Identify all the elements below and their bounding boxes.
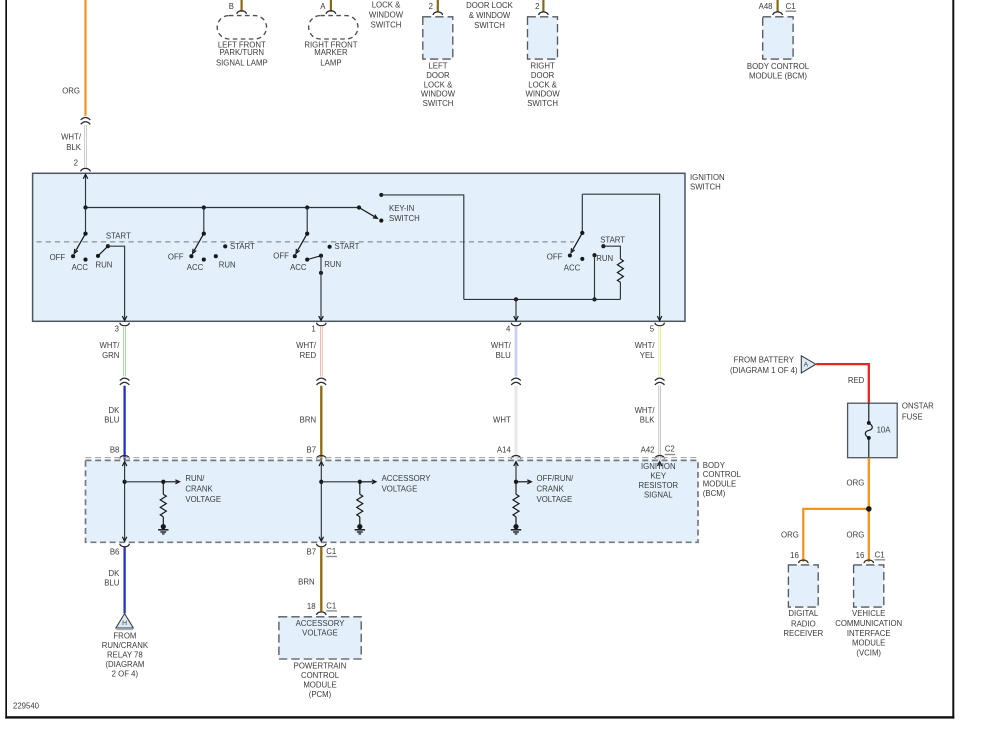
svg-text:MODULE: MODULE	[303, 681, 336, 690]
module BODY CONTROL MODULE (BCM) top	[763, 0, 793, 59]
wire ORG from fuse down	[868, 458, 870, 562]
wire WHT/BLK	[84, 125, 87, 168]
svg-text:START: START	[106, 232, 131, 241]
pin A	[320, 2, 326, 11]
svg-text:(DIAGRAM: (DIAGRAM	[105, 660, 144, 669]
off-page reference triangle A from battery	[801, 356, 816, 373]
svg-text:B7: B7	[307, 548, 317, 557]
svg-text:BODY: BODY	[703, 461, 726, 470]
svg-text:ACC: ACC	[290, 263, 307, 272]
svg-text:ONSTAR: ONSTAR	[902, 402, 934, 411]
svg-text:(PCM): (PCM)	[309, 690, 332, 699]
svg-text:C2: C2	[665, 445, 675, 454]
svg-text:FROM BATTERY: FROM BATTERY	[734, 355, 795, 364]
label DOOR LOCK & WINDOW SWITCH (cut-off component)	[466, 1, 514, 30]
wire to pin 4 exit	[514, 299, 519, 320]
svg-text:SWITCH: SWITCH	[423, 99, 454, 108]
ignition switch section 3 (pin 1)	[293, 205, 323, 275]
svg-text:CONTROL: CONTROL	[703, 470, 742, 479]
labels OFF ACC RUN START section3	[273, 242, 359, 272]
BCM circuit ACCESSORY VOLTAGE (B7 to B7) with resistor and ground	[319, 462, 376, 542]
label RIGHT FRONT MARKER LAMP	[304, 41, 357, 68]
svg-text:ACC: ACC	[187, 263, 204, 272]
label BODY CONTROL MODULE (BCM)	[703, 461, 742, 498]
module RIGHT DOOR LOCK & WINDOW SWITCH	[528, 0, 558, 59]
svg-text:(VCIM): (VCIM)	[856, 648, 881, 657]
svg-text:FUSE: FUSE	[902, 412, 923, 421]
svg-text:RUN/: RUN/	[185, 474, 205, 483]
label IGNITION SWITCH	[690, 173, 725, 191]
svg-text:CONTROL: CONTROL	[301, 671, 340, 680]
svg-text:C1: C1	[786, 2, 796, 11]
svg-text:START: START	[230, 242, 255, 251]
pin 2 right door switch	[535, 2, 539, 11]
svg-text:B7: B7	[307, 445, 317, 454]
svg-text:BLU: BLU	[104, 416, 120, 425]
svg-text:WHT/: WHT/	[296, 341, 317, 350]
svg-text:BRN: BRN	[300, 416, 316, 425]
svg-text:16: 16	[790, 551, 799, 560]
svg-text:OFF: OFF	[547, 253, 563, 262]
svg-text:DOOR: DOOR	[531, 71, 555, 80]
svg-text:ORG: ORG	[781, 531, 799, 540]
label ACCESSORY VOLTAGE	[382, 474, 432, 493]
pin 16 VCIM	[856, 551, 865, 560]
connector C1 label PCM	[326, 601, 337, 611]
svg-text:10A: 10A	[877, 425, 892, 434]
svg-text:2: 2	[429, 2, 433, 11]
svg-text:KEY-IN: KEY-IN	[389, 204, 414, 213]
pin A48	[759, 2, 773, 11]
connector arc VCIM	[864, 560, 873, 563]
svg-text:POWERTRAIN: POWERTRAIN	[294, 662, 347, 671]
svg-text:OFF: OFF	[50, 253, 66, 262]
svg-text:IGNITION: IGNITION	[641, 462, 676, 471]
lower rail wire	[464, 298, 621, 300]
labels OFF ACC RUN START section1	[50, 232, 131, 273]
label LOCK & WINDOW SWITCH (cut-off component)	[369, 0, 404, 29]
svg-text:MODULE: MODULE	[703, 480, 736, 489]
svg-text:DOOR LOCK: DOOR LOCK	[466, 1, 514, 10]
key-in switch	[357, 193, 384, 223]
svg-text:SWITCH: SWITCH	[389, 214, 420, 223]
svg-text:A42: A42	[641, 445, 655, 454]
labels OFF ACC RUN START section4	[547, 236, 625, 273]
svg-text:2: 2	[535, 2, 539, 11]
svg-text:LOCK &: LOCK &	[424, 80, 453, 89]
svg-text:RED: RED	[300, 351, 317, 360]
svg-text:(DIAGRAM 1 OF 4): (DIAGRAM 1 OF 4)	[730, 366, 798, 375]
svg-text:DOOR: DOOR	[426, 71, 450, 80]
svg-text:WHT/: WHT/	[635, 406, 656, 415]
connector arc at ignition switch pin 2	[81, 168, 90, 171]
ONSTAR FUSE box	[848, 403, 898, 458]
labels OFF ACC RUN START section2	[168, 242, 255, 272]
svg-text:SWITCH: SWITCH	[690, 182, 721, 191]
ignition switch section 4 (pins 4,5)	[568, 194, 606, 261]
lamp LEFT FRONT PARK/TURN SIGNAL LAMP	[217, 0, 266, 39]
wire section4 top to pin 5 exit	[582, 194, 662, 320]
svg-text:ORG: ORG	[62, 86, 80, 95]
svg-text:RECEIVER: RECEIVER	[783, 629, 823, 638]
label ORG	[62, 86, 80, 95]
svg-text:IGNITION: IGNITION	[690, 173, 725, 182]
pin 16 digital radio receiver	[790, 551, 799, 560]
label FROM BATTERY (DIAGRAM 1 OF 4)	[730, 355, 798, 375]
svg-text:VOLTAGE: VOLTAGE	[185, 495, 221, 504]
BCM circuit OFF/RUN/CRANK VOLTAGE (A14) resistor to ground	[511, 462, 532, 534]
svg-text:YEL: YEL	[640, 351, 655, 360]
resistor in ignition switch START circuit	[603, 246, 623, 299]
svg-text:4: 4	[506, 324, 511, 333]
svg-text:A14: A14	[497, 445, 512, 454]
svg-text:RADIO: RADIO	[791, 620, 816, 629]
connector arc BCM pin B6	[120, 544, 129, 547]
label ACCESSORY VOLTAGE in PCM	[296, 619, 346, 637]
svg-text:SIGNAL: SIGNAL	[644, 491, 673, 500]
label IGNITION KEY RESISTOR SIGNAL	[638, 462, 678, 500]
connector arc digital radio receiver	[799, 560, 808, 563]
label BODY CONTROL MODULE (BCM) top	[747, 62, 810, 80]
svg-text:LOCK &: LOCK &	[372, 0, 401, 9]
connector C1 label VCIM	[875, 550, 886, 560]
svg-text:1: 1	[311, 324, 315, 333]
svg-text:WHT/: WHT/	[491, 341, 512, 350]
svg-text:BLK: BLK	[640, 416, 656, 425]
ignition switch box	[33, 173, 685, 321]
diagram number 229540	[13, 702, 40, 711]
label VEHICLE COMMUNICATION INTERFACE MODULE (VCIM)	[835, 609, 902, 657]
svg-text:RUN: RUN	[324, 260, 341, 269]
pin 2 left door switch	[429, 2, 433, 11]
svg-text:B8: B8	[110, 445, 120, 454]
module VEHICLE COMMUNICATION INTERFACE MODULE (VCIM)	[854, 565, 884, 607]
pin 18 PCM	[307, 602, 316, 611]
BCM input IGNITION KEY RESISTOR SIGNAL (A42)	[657, 462, 662, 467]
svg-text:18: 18	[307, 602, 316, 611]
pin B6	[110, 548, 120, 557]
svg-text:A48: A48	[759, 2, 773, 11]
svg-text:ORG: ORG	[847, 531, 865, 540]
svg-text:C1: C1	[875, 550, 885, 559]
ignition switch section 1 (pin 3)	[71, 205, 110, 261]
connector C1 label top BCM	[786, 2, 797, 11]
svg-text:OFF: OFF	[168, 252, 184, 261]
svg-text:SWITCH: SWITCH	[527, 99, 558, 108]
splice connector ORG to WHT/BLK	[81, 118, 91, 125]
svg-text:MARKER: MARKER	[314, 48, 348, 57]
svg-text:OFF/RUN/: OFF/RUN/	[537, 474, 575, 483]
svg-text:WHT/: WHT/	[635, 341, 656, 350]
wire RED from battery to fuse	[816, 364, 869, 403]
BCM circuit RUN/CRANK VOLTAGE (B8 to B6) with resistor and ground	[122, 462, 179, 542]
module LEFT DOOR LOCK & WINDOW SWITCH	[423, 0, 453, 59]
svg-text:LEFT: LEFT	[428, 62, 447, 71]
svg-text:FROM: FROM	[113, 632, 136, 641]
label WHT/BLK	[61, 133, 82, 152]
wire key-in switch to lower rail	[381, 195, 464, 300]
svg-text:BLU: BLU	[496, 351, 512, 360]
svg-text:RED: RED	[848, 376, 865, 385]
pin 2 ignition switch	[74, 159, 78, 168]
label KEY-IN SWITCH	[389, 204, 420, 223]
svg-text:OFF: OFF	[273, 252, 289, 261]
svg-text:ORG: ORG	[847, 479, 865, 488]
svg-text:WINDOW: WINDOW	[421, 90, 456, 99]
svg-text:BLU: BLU	[104, 578, 120, 587]
module DIGITAL RADIO RECEIVER	[788, 565, 818, 607]
label FROM RUN/CRANK RELAY 78 (DIAGRAM 2 OF 4)	[102, 632, 149, 679]
svg-text:MODULE (BCM): MODULE (BCM)	[749, 71, 807, 80]
svg-text:16: 16	[856, 551, 865, 560]
label POWERTRAIN CONTROL MODULE (PCM)	[294, 662, 347, 700]
svg-text:B6: B6	[110, 548, 120, 557]
svg-text:MODULE: MODULE	[852, 639, 885, 648]
label LEFT DOOR LOCK & WINDOW SWITCH	[421, 62, 456, 109]
svg-text:GRN: GRN	[102, 351, 119, 360]
wire chain pin3: WHT/GRN to DK BLU (BCM B8)	[120, 323, 129, 326]
powertrain control module PCM box	[279, 617, 361, 659]
svg-text:ACCESSORY: ACCESSORY	[382, 474, 432, 483]
svg-text:RESISTOR: RESISTOR	[638, 481, 678, 490]
svg-text:START: START	[600, 236, 625, 245]
svg-text:WHT: WHT	[493, 416, 511, 425]
svg-text:CRANK: CRANK	[185, 485, 213, 494]
svg-text:LOCK &: LOCK &	[528, 80, 557, 89]
svg-text:KEY: KEY	[650, 472, 666, 481]
label RUN/CRANK VOLTAGE	[185, 474, 221, 504]
svg-text:ACC: ACC	[564, 264, 581, 273]
svg-text:A: A	[320, 2, 326, 11]
label RIGHT DOOR LOCK & WINDOW SWITCH	[525, 62, 560, 109]
svg-text:WHT/: WHT/	[99, 341, 120, 350]
label BRN	[298, 578, 314, 587]
label RED	[848, 376, 865, 385]
svg-text:VOLTAGE: VOLTAGE	[382, 485, 418, 494]
svg-text:A: A	[804, 362, 809, 369]
svg-text:SWITCH: SWITCH	[371, 20, 402, 29]
svg-text:ACCESSORY: ACCESSORY	[296, 619, 346, 628]
svg-text:RUN/CRANK: RUN/CRANK	[102, 641, 149, 650]
svg-text:BRN: BRN	[298, 578, 314, 587]
wire chain pin5: WHT/YEL to WHT/BLK (BCM A42 C2)	[655, 323, 664, 326]
svg-text:2 OF 4): 2 OF 4)	[112, 669, 139, 678]
svg-text:H: H	[122, 620, 127, 627]
svg-text:CRANK: CRANK	[537, 485, 565, 494]
svg-text:PARK/TURN: PARK/TURN	[220, 48, 264, 57]
label OFF/RUN/CRANK VOLTAGE	[537, 474, 575, 504]
bus wire inside ignition switch	[86, 207, 360, 209]
wire DK BLU from B6	[123, 547, 125, 613]
svg-text:WINDOW: WINDOW	[525, 90, 560, 99]
svg-text:RUN: RUN	[596, 254, 613, 263]
svg-text:DK: DK	[109, 569, 121, 578]
pin B	[229, 2, 234, 11]
svg-text:3: 3	[115, 324, 119, 333]
label DK BLU	[104, 569, 120, 587]
svg-text:LAMP: LAMP	[320, 58, 341, 67]
svg-text:2: 2	[74, 159, 78, 168]
wire chain pin1: WHT/RED to BRN (BCM B7)	[317, 323, 326, 326]
connector arc PCM pin 18	[317, 612, 326, 615]
label DIGITAL RADIO RECEIVER	[783, 609, 823, 638]
svg-text:C1: C1	[326, 547, 336, 556]
svg-text:DK: DK	[109, 406, 121, 415]
wire RUN contact to lower rail	[592, 255, 596, 301]
svg-text:& WINDOW: & WINDOW	[469, 11, 511, 20]
svg-text:RIGHT: RIGHT	[530, 62, 554, 71]
label ORG below fuse	[847, 479, 865, 488]
svg-text:SWITCH: SWITCH	[474, 21, 505, 30]
connector arc BCM pin B7 bottom	[317, 544, 326, 547]
junction node pin4	[514, 297, 518, 301]
wire ORG from top	[84, 0, 86, 116]
wire entry pin2 with up arrow	[83, 174, 88, 207]
connector C1 label bottom BCM	[326, 547, 337, 557]
svg-text:VOLTAGE: VOLTAGE	[537, 495, 573, 504]
label LEFT FRONT PARK/TURN SIGNAL LAMP	[216, 41, 268, 68]
ignition switch section 2	[189, 205, 227, 261]
svg-text:DIGITAL: DIGITAL	[788, 609, 818, 618]
svg-text:INTERFACE: INTERFACE	[847, 629, 891, 638]
label ORG left branch	[781, 531, 799, 540]
svg-text:5: 5	[650, 324, 655, 333]
svg-text:VOLTAGE: VOLTAGE	[302, 628, 338, 637]
label ORG right branch	[847, 531, 865, 540]
wire BRN from B7 to PCM	[320, 547, 322, 612]
svg-text:WINDOW: WINDOW	[369, 10, 404, 19]
svg-text:(BCM): (BCM)	[703, 489, 726, 498]
wire section1 to pin 3 exit	[108, 246, 127, 320]
svg-text:RUN: RUN	[219, 260, 236, 269]
svg-text:VEHICLE: VEHICLE	[852, 609, 885, 618]
svg-text:ACC: ACC	[72, 263, 89, 272]
svg-text:RELAY 78: RELAY 78	[107, 651, 143, 660]
svg-text:START: START	[335, 242, 360, 251]
dashed start-detent line	[37, 241, 575, 243]
svg-text:C1: C1	[326, 601, 336, 610]
fuse element 10A	[865, 403, 872, 458]
wire chain pin4: WHT/BLU to WHT (BCM A14)	[511, 323, 520, 326]
label 10A	[877, 425, 892, 434]
svg-text:BLK: BLK	[66, 143, 82, 152]
junction node ORG split	[866, 506, 872, 512]
pin B7 bottom	[307, 548, 317, 557]
svg-text:COMMUNICATION: COMMUNICATION	[835, 619, 902, 628]
wire ORG branch to digital radio receiver	[803, 509, 869, 562]
lamp RIGHT FRONT MARKER LAMP	[309, 0, 358, 39]
svg-text:SIGNAL LAMP: SIGNAL LAMP	[216, 58, 268, 67]
off-page reference triangle H to RUN/CRANK RELAY	[116, 614, 133, 630]
wire section3 to pin 1 exit	[319, 256, 324, 321]
svg-text:229540: 229540	[13, 702, 40, 711]
svg-text:WHT/: WHT/	[61, 133, 82, 142]
svg-text:B: B	[229, 2, 234, 11]
svg-text:BODY CONTROL: BODY CONTROL	[747, 62, 810, 71]
body control module BCM box	[86, 458, 699, 543]
label ONSTAR FUSE	[902, 402, 934, 422]
svg-text:RUN: RUN	[96, 260, 113, 269]
